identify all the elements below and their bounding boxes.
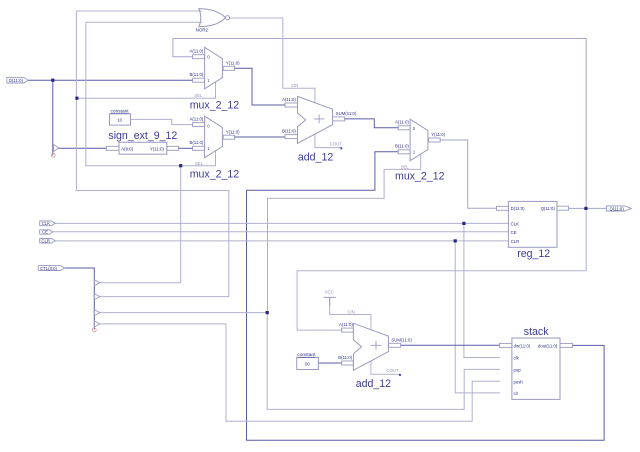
wire CLR net [55,240,508,242]
wire NOR2 input 1 [76,11,201,191]
svg-text:A(8:0): A(8:0) [121,147,133,152]
wire buffer3 output [100,312,267,314]
svg-text:SUM(11:0): SUM(11:0) [391,337,412,342]
svg-text:Y(11:0): Y(11:0) [226,129,240,134]
mux U2 mux_2_12 middle [190,116,241,180]
svg-text:NOR2: NOR2 [196,28,209,33]
svg-text:CTL(3:0): CTL(3:0) [40,266,58,271]
svg-text:A(11:0): A(11:0) [395,120,409,125]
svg-text:COUT: COUT [386,368,399,373]
svg-text:SEL: SEL [194,93,203,98]
svg-text:A(11:0): A(11:0) [190,117,204,122]
gate NOR2 [196,9,230,33]
wire reg Q feedback to add2 A [297,208,586,330]
wire NOR2 output to add1 CIN [230,18,315,103]
svg-text:VCC: VCC [325,289,334,294]
wire add2 SUM to stack din [401,344,499,346]
wire CLK branch to stack clk [464,223,500,357]
wire reg Q to output port [569,207,607,209]
port CLR input [40,239,55,244]
wire buffer2 to mux1 SEL net link [76,191,228,297]
wire mux1 Y to add1 A [235,68,285,105]
svg-text:Y(11:0): Y(11:0) [431,132,445,137]
svg-text:reg_12: reg_12 [517,248,550,260]
wire CE net [53,231,509,233]
svg-text:push: push [514,379,524,384]
svg-text:B(11:0): B(11:0) [190,140,204,145]
wire VCC to add2 CIN [330,297,371,329]
svg-text:add_12: add_12 [356,378,391,390]
wire constant 10 to mux2 A [131,119,193,124]
svg-text:A(11:0): A(11:0) [339,322,353,327]
svg-text:mux_2_12: mux_2_12 [395,170,445,182]
svg-text:constant: constant [111,109,130,115]
wire D(11:0) input bus to mux1 B [28,79,193,81]
svg-text:stack: stack [524,326,549,338]
wire buffer4 to stack push [100,324,500,421]
buffer tap on D bus for sign_ext [51,144,59,157]
wire CLK net [55,222,508,224]
svg-text:B(11:0): B(11:0) [190,72,204,77]
port CTL(3:0) input [38,266,64,271]
svg-text:mux_2_12: mux_2_12 [190,169,240,181]
svg-text:sign_ext_9_12: sign_ext_9_12 [108,130,177,142]
wire mux1 SEL net [77,82,216,98]
buffer tap 3 on CTL bus [94,310,100,316]
svg-text:B(11:0): B(11:0) [282,129,296,134]
component sign_ext_9_12 [106,130,178,154]
svg-text:mux_2_12: mux_2_12 [190,100,240,112]
svg-text:CLR: CLR [41,239,50,244]
mux U3 mux_2_12 right [395,119,446,182]
wire mux3 Y to reg D [440,140,496,208]
wire mux2 Y to add1 B [235,136,285,138]
svg-text:SEL: SEL [401,164,410,169]
wire reg Q feedback to mux1 A [173,39,586,209]
junction D bus [51,79,54,82]
svg-text:SEL: SEL [195,161,204,166]
svg-text:clr: clr [514,391,519,396]
wire add1 SUM to mux3 A [345,119,399,128]
svg-text:A(11:0): A(11:0) [190,49,204,54]
svg-text:COUT: COUT [330,142,343,147]
dangling CTL bus end marker [92,328,96,332]
svg-text:SUM(11:0): SUM(11:0) [336,111,357,116]
buffer tap 2 on CTL bus [94,294,100,300]
adder A1 add_12 top [282,83,357,164]
register reg_12 [496,201,568,260]
wire D bus branch down to tap buffer [52,80,54,155]
adder A2 add_12 bottom [338,309,412,390]
svg-text:B(11:0): B(11:0) [395,144,409,149]
svg-text:A(11:0): A(11:0) [282,97,296,102]
constant C1 value 10 [110,109,131,126]
wire constant 00 to add2 B [318,362,341,364]
wire NOR2 input 2 [86,22,202,165]
svg-text:Y(11:0): Y(11:0) [150,147,164,152]
junction reg Q net [584,207,587,210]
junction mux2 SEL [179,164,182,167]
buffer tap 4 on CTL bus [94,321,100,327]
wire CLR branch to stack clr [455,241,499,393]
wire sign_ext Y(11:0) to mux2 B [179,147,193,149]
svg-text:clk: clk [514,356,520,361]
mux U1 mux_2_12 top [190,47,241,111]
svg-text:din(11:0): din(11:0) [514,343,531,348]
wire CTL(3:0) bus [65,268,95,329]
svg-text:CLR: CLR [511,239,520,244]
svg-text:CIN: CIN [347,309,354,314]
svg-text:add_12: add_12 [298,152,333,164]
port CE input [40,230,53,235]
svg-text:constant: constant [297,352,316,358]
power VCC [324,289,335,305]
junction buffer3 net [266,311,269,314]
svg-text:B(11:0): B(11:0) [338,355,352,360]
svg-text:CIN: CIN [291,83,298,88]
junction mux1 SEL [75,97,78,100]
junction CLK net [462,222,465,225]
svg-text:CLK: CLK [42,221,50,226]
svg-text:D(11:0): D(11:0) [9,78,24,83]
svg-text:Y(11:0): Y(11:0) [226,60,240,65]
wire mux2 SEL net [86,151,216,166]
wire add1 COUT stub [315,134,341,148]
wire buffer3 branch to stack pop [267,313,499,410]
constant C2 value 00 [297,352,319,369]
port CLK input [40,221,55,226]
wire add2 COUT stub [371,361,400,374]
svg-text:00: 00 [305,361,310,366]
wire stack dout bus to mux3 B [247,152,605,441]
svg-text:CE: CE [511,230,517,235]
wire tap buffer output to sign_ext A(8:0) [59,147,107,149]
svg-text:10: 10 [117,118,122,123]
svg-text:Q(11:0): Q(11:0) [541,206,556,211]
port D(11:0) input [7,77,28,83]
svg-text:Q(11:0): Q(11:0) [610,206,625,211]
buffer tap 1 on CTL bus [94,280,100,286]
svg-text:CLK: CLK [511,221,519,226]
svg-text:dout(11:0): dout(11:0) [538,343,558,348]
wire mux3 SEL net [268,154,421,313]
junction CLR net [454,239,457,242]
port Q(11:0) output [606,206,631,211]
wire buffer1 to mux2 SEL net link [100,166,181,283]
svg-text:D(11:0): D(11:0) [511,206,526,211]
svg-text:CE: CE [42,230,48,235]
svg-text:pop: pop [514,367,522,372]
component stack [500,326,573,399]
